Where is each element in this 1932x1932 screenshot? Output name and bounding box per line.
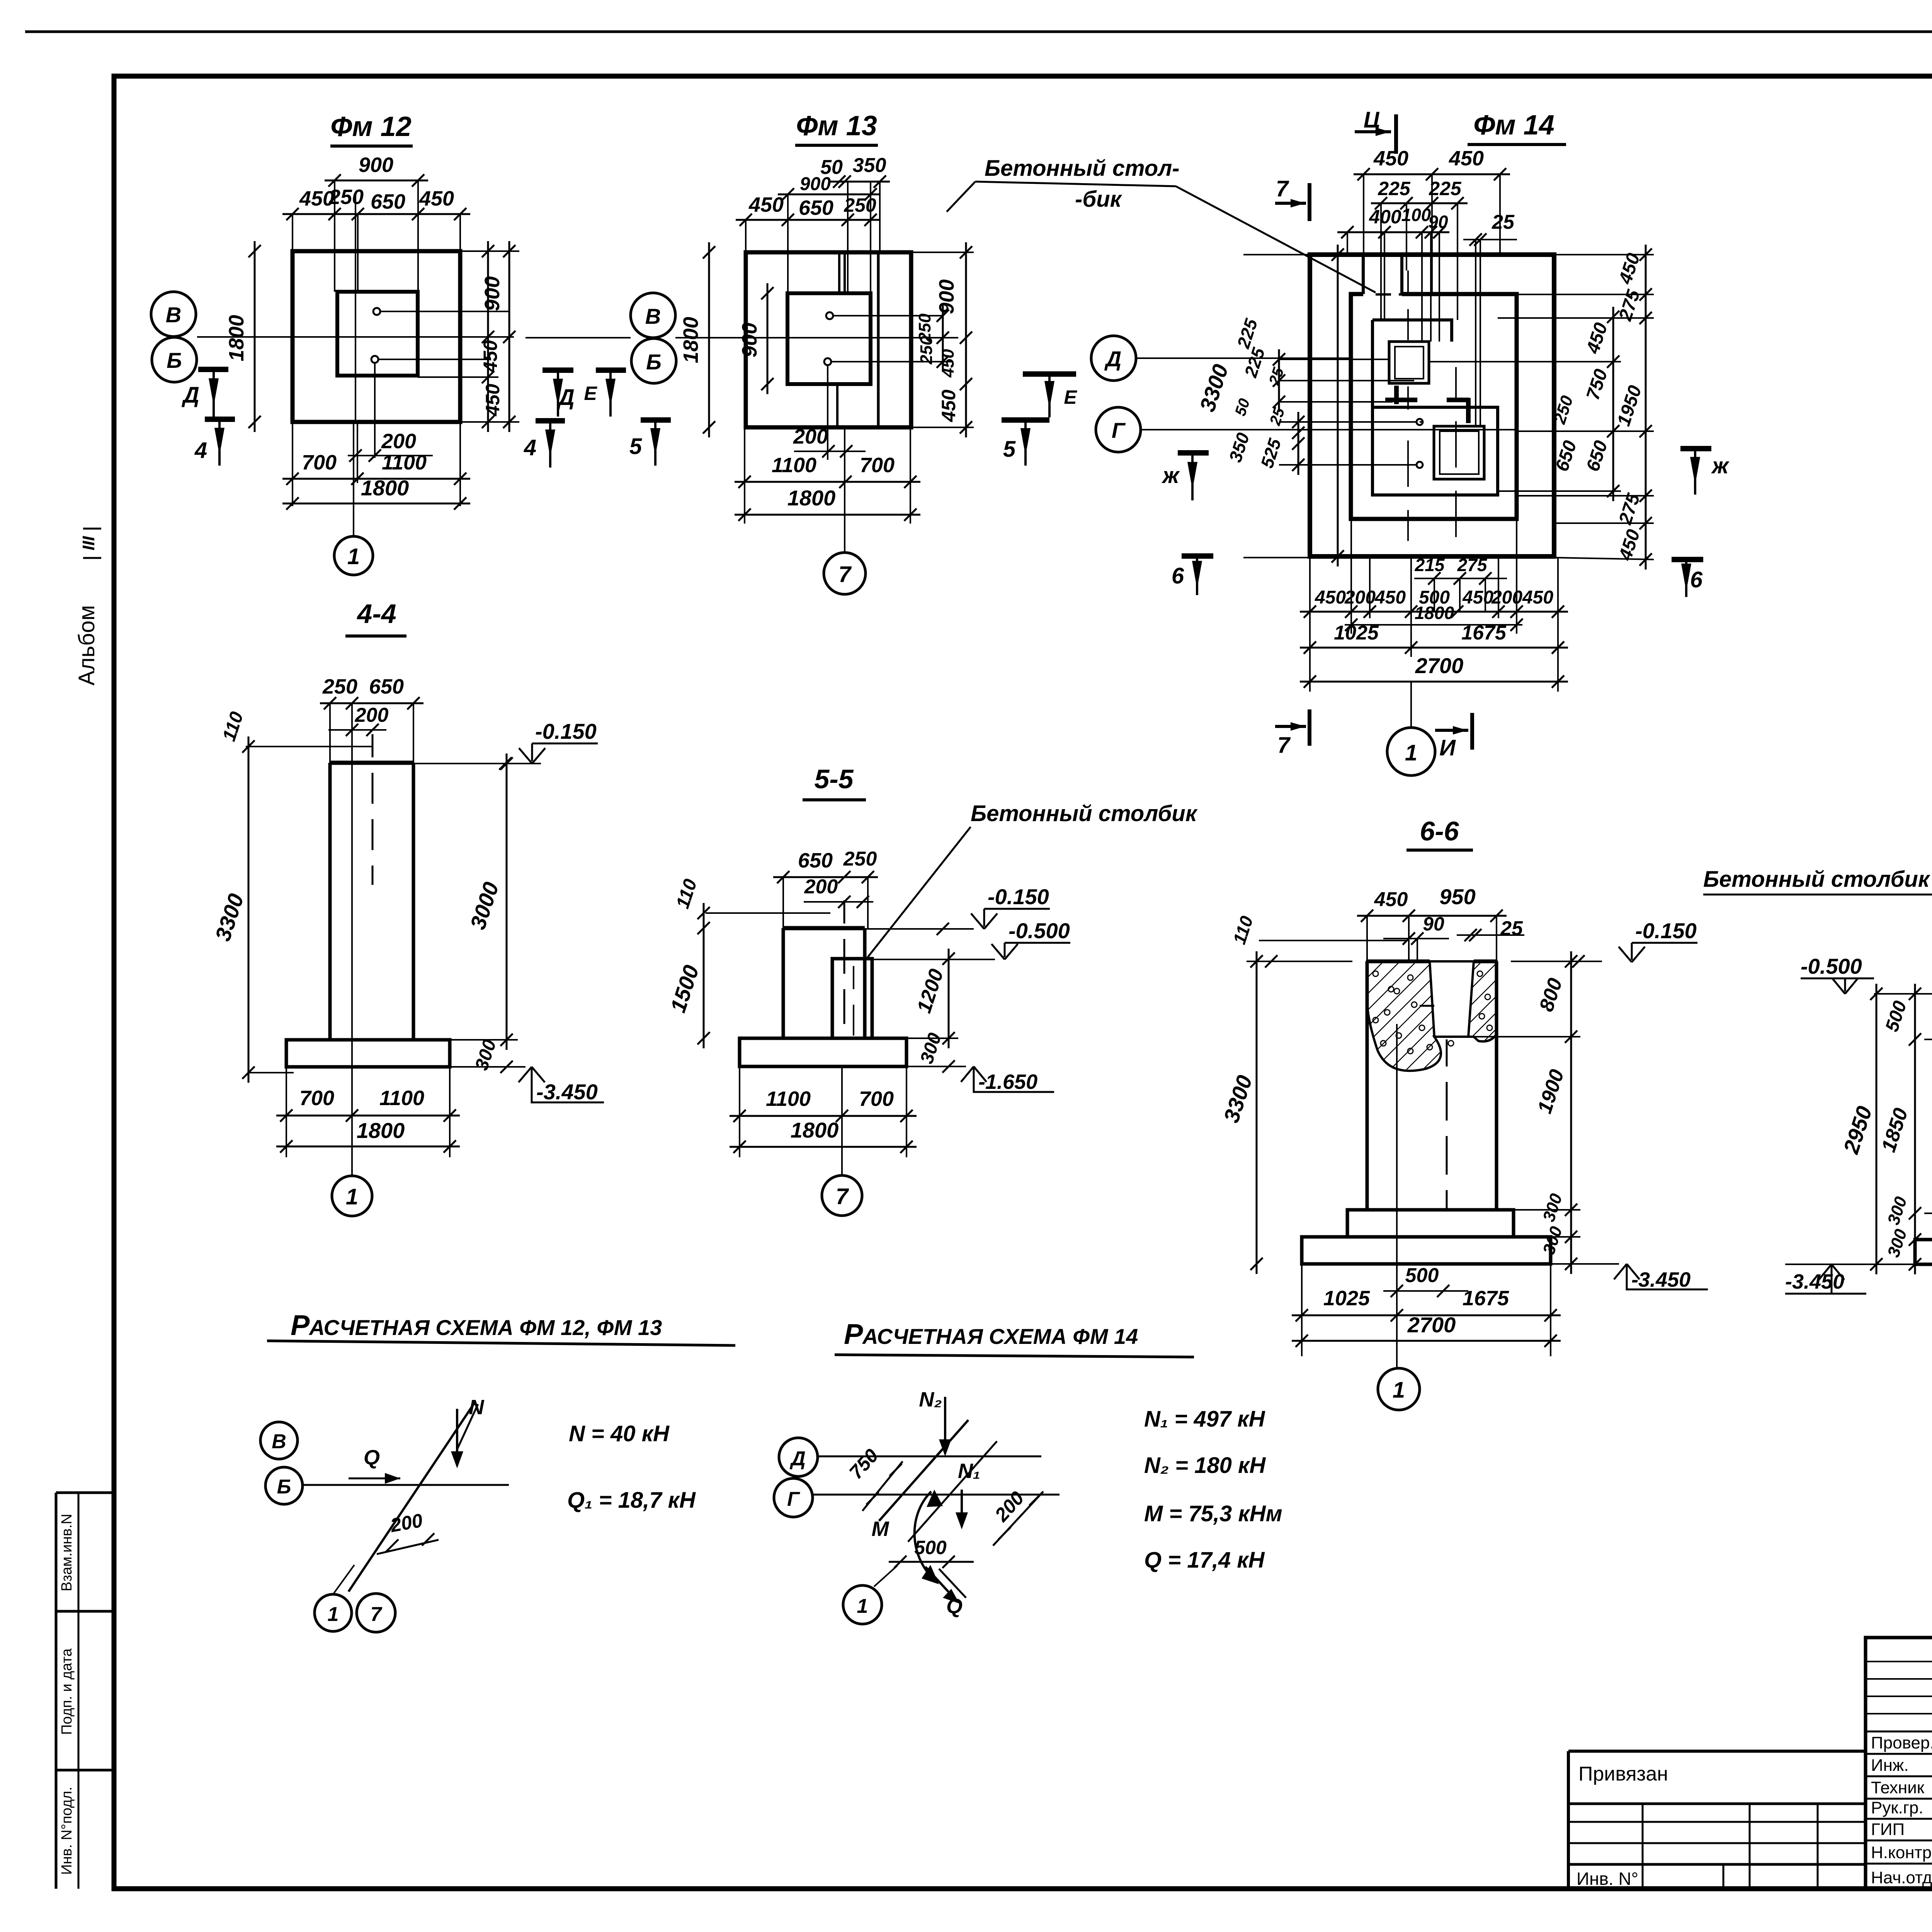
Фм13 bottom dim 1800 <box>735 514 920 516</box>
Фм13 axis circle 7 <box>844 427 845 552</box>
svg-text:M: M <box>872 1517 889 1541</box>
scheme2 axis circle Д <box>779 1438 818 1476</box>
svg-text:Инв. N°: Инв. N° <box>1577 1869 1638 1889</box>
svg-text:N = 40 кН: N = 40 кН <box>569 1421 670 1446</box>
svg-text:450: 450 <box>1374 587 1406 608</box>
svg-text:N: N <box>469 1396 485 1419</box>
section mark И bottom <box>1435 729 1468 732</box>
Фм12 outer square <box>293 251 460 422</box>
svg-text:5: 5 <box>629 434 642 459</box>
7-7 left dim 2950 <box>1876 984 1878 1274</box>
svg-text:-1.650: -1.650 <box>978 1070 1037 1094</box>
svg-text:650: 650 <box>369 675 404 698</box>
axis circle Б middle <box>631 338 676 383</box>
6-6 right dims 800 1900 300 300 <box>1570 951 1572 1274</box>
4-4 column <box>330 761 413 765</box>
svg-text:Провер.: Провер. <box>1871 1733 1932 1752</box>
axis line between plans <box>526 337 631 338</box>
svg-text:АСЧЕТНАЯ СХЕМА ФМ 14: АСЧЕТНАЯ СХЕМА ФМ 14 <box>862 1324 1138 1349</box>
Фм14 dashed centerlines <box>1407 270 1409 541</box>
svg-text:Б: Б <box>167 348 182 372</box>
scheme2 axis lines <box>818 1456 1041 1458</box>
5-5 axis line <box>841 1066 843 1175</box>
svg-text:В: В <box>272 1430 286 1453</box>
svg-text:250: 250 <box>322 675 357 698</box>
svg-text:1025: 1025 <box>1334 622 1379 644</box>
section mark 7 bottom-left <box>1275 725 1306 728</box>
Фм14 right horizontal extension lines <box>1554 254 1654 255</box>
svg-text:-0.500: -0.500 <box>1009 918 1070 943</box>
svg-text:700: 700 <box>859 1087 894 1111</box>
svg-text:250: 250 <box>843 848 877 870</box>
svg-text:225: 225 <box>1429 178 1462 199</box>
svg-text:-3.450: -3.450 <box>536 1080 598 1104</box>
svg-text:650: 650 <box>799 196 833 219</box>
svg-text:225: 225 <box>1378 178 1411 199</box>
svg-text:6-6: 6-6 <box>1420 816 1459 846</box>
Фм14 top dims 400 100 90 <box>1337 231 1449 233</box>
svg-text:2700: 2700 <box>1407 1313 1456 1337</box>
svg-text:ж: ж <box>1162 463 1180 488</box>
Фм14 middle rect <box>1351 294 1517 519</box>
scheme2 inclined member <box>879 1420 968 1521</box>
svg-text:1800: 1800 <box>679 317 702 363</box>
6-6 bottom dim 2700 <box>1292 1340 1561 1342</box>
4-4 bottom dims 700 1100 <box>276 1115 460 1117</box>
4-4 bottom dim 1800 <box>276 1146 460 1148</box>
svg-text:1100: 1100 <box>772 454 816 477</box>
svg-text:Инж.: Инж. <box>1871 1756 1909 1775</box>
Фм12 bottom dim 700 1100 <box>282 478 470 480</box>
svg-text:Бетонный столбик: Бетонный столбик <box>1703 867 1930 892</box>
svg-text:ГИП: ГИП <box>1871 1820 1905 1839</box>
section mark Д left <box>198 367 228 372</box>
Фм14 top dims 450 450 <box>1354 173 1510 175</box>
Фм13 top dim 900 <box>778 194 881 196</box>
scheme1 axis line <box>303 1484 509 1486</box>
svg-text:Б: Б <box>277 1476 291 1498</box>
6-6 axis line <box>1396 1024 1398 1264</box>
svg-text:Д: Д <box>1104 347 1121 371</box>
5-5 column <box>783 926 865 930</box>
svg-text:-3.450: -3.450 <box>1631 1268 1690 1291</box>
svg-text:500: 500 <box>914 1537 947 1558</box>
svg-text:Фм 14: Фм 14 <box>1473 110 1554 141</box>
Фм12 horizontal axis <box>197 336 514 338</box>
svg-text:1675: 1675 <box>1461 622 1507 644</box>
svg-text:1: 1 <box>1393 1378 1405 1403</box>
Фм14 top dims 225 225 <box>1371 202 1468 204</box>
svg-text:Q: Q <box>364 1446 380 1469</box>
6-6 axis circle 1 <box>1396 1264 1398 1368</box>
svg-text:ж: ж <box>1711 453 1730 478</box>
svg-text:1: 1 <box>1405 740 1417 765</box>
svg-text:-3.450: -3.450 <box>1785 1270 1844 1293</box>
svg-text:Г: Г <box>787 1488 800 1510</box>
svg-text:Нач.отд: Нач.отд <box>1871 1868 1932 1887</box>
svg-text:Фм 13: Фм 13 <box>796 111 877 141</box>
5-5 level -0.150 <box>865 928 974 930</box>
4-4 top dim 200 <box>328 729 386 731</box>
6-6 bottom dims 1025 1675 <box>1292 1315 1561 1316</box>
scheme2 axis circle 1 <box>874 1566 897 1587</box>
svg-text:Привязан: Привязан <box>1578 1763 1668 1785</box>
4-4 axis line <box>351 742 353 1067</box>
scheme2 axis circle Г <box>774 1478 813 1517</box>
Фм14 outer rect <box>1310 255 1554 556</box>
svg-text:2700: 2700 <box>1415 653 1464 678</box>
4-4 level -0.150 <box>413 763 541 764</box>
svg-text:Подп. и дата: Подп. и дата <box>59 1648 75 1735</box>
6-6 top thick edge <box>1367 959 1430 963</box>
5-5 footing <box>740 1038 906 1066</box>
section mark Ж left <box>1178 450 1209 456</box>
Фм12 left dim 1800 <box>254 241 256 432</box>
5-5 top dims 650 250 <box>773 876 878 878</box>
section mark 5 left <box>641 417 671 423</box>
svg-text:400: 400 <box>1369 206 1401 228</box>
svg-text:200: 200 <box>381 430 416 453</box>
svg-text:1800: 1800 <box>787 486 836 510</box>
Фм12 column square <box>337 292 418 376</box>
svg-text:650: 650 <box>798 849 833 872</box>
svg-text:700: 700 <box>299 1087 334 1110</box>
svg-text:200: 200 <box>793 425 828 448</box>
svg-text:250: 250 <box>917 336 936 365</box>
6-6 footing steps <box>1347 1210 1514 1237</box>
svg-text:200: 200 <box>804 876 838 898</box>
4-4 footing <box>286 1040 450 1067</box>
svg-text:Г: Г <box>1112 418 1126 442</box>
section mark 4 left <box>205 417 235 422</box>
Фм13 channel (столбик slot) <box>838 252 840 293</box>
svg-text:900: 900 <box>800 174 831 194</box>
svg-text:450: 450 <box>1449 147 1484 170</box>
5-5 bottom dims 1100 700 <box>730 1115 917 1117</box>
svg-text:7: 7 <box>1276 176 1289 201</box>
5-5 left dim 1500 <box>703 903 705 1048</box>
Фм14 right dim lines <box>1612 307 1614 501</box>
Фм14 left dims 225 225 25 <box>1278 349 1280 412</box>
svg-text:Взам.инв.N: Взам.инв.N <box>59 1514 75 1592</box>
Фм13 horizontal axis <box>675 337 958 338</box>
scheme1 axis circle В <box>260 1422 298 1459</box>
Фм13 outer square <box>746 252 911 427</box>
svg-text:450: 450 <box>1462 587 1493 608</box>
svg-text:В: В <box>166 303 181 327</box>
привязан table <box>1567 1751 1570 1889</box>
svg-text:Бетонный столбик: Бетонный столбик <box>971 801 1198 826</box>
svg-text:Б: Б <box>646 350 662 374</box>
5-5 dim 110 <box>706 912 830 914</box>
Фм14 anchors <box>1417 419 1423 425</box>
scheme1 inclined member <box>349 1402 475 1592</box>
svg-text:1: 1 <box>857 1595 868 1617</box>
svg-text:6: 6 <box>1690 567 1703 592</box>
svg-text:900: 900 <box>738 323 761 357</box>
svg-text:Е: Е <box>1064 386 1077 408</box>
6-6 top dim 25 <box>1457 934 1524 936</box>
svg-text:215: 215 <box>1415 555 1445 575</box>
svg-text:450: 450 <box>748 193 784 216</box>
svg-text:Q₁ = 18,7 кН: Q₁ = 18,7 кН <box>567 1488 696 1513</box>
6-6 ground line <box>1247 961 1352 962</box>
svg-text:4: 4 <box>194 438 207 463</box>
Фм14 anchor leader lines <box>1279 421 1417 423</box>
6-6 slot (recess) <box>1430 961 1474 1037</box>
Фм14 corner symbol left <box>1394 386 1399 404</box>
svg-text:25: 25 <box>1492 211 1515 233</box>
Фм14 upper pedestal outline <box>1372 320 1452 342</box>
4-4 anchor dashed line <box>372 734 374 885</box>
section mark Д right of Фм12 <box>543 367 573 373</box>
svg-text:Альбом: Альбом <box>74 605 99 685</box>
Фм14 bottom dim 2700 <box>1300 681 1568 683</box>
section mark 6 right <box>1672 557 1703 562</box>
svg-text:25: 25 <box>1500 917 1523 940</box>
Фм14 lower platform <box>1372 407 1498 495</box>
svg-text:450: 450 <box>480 340 501 373</box>
Фм14 bottom dims 450 200 450 500 450 200 450 <box>1300 611 1568 613</box>
svg-text:6: 6 <box>1172 563 1184 588</box>
svg-text:-0.150: -0.150 <box>535 719 597 743</box>
title block: personnel table frame <box>1866 1638 1932 1889</box>
svg-text:450: 450 <box>939 349 957 378</box>
Фм13 left dim 900 (inner) <box>767 283 769 394</box>
Фм13 right dims 900 250 250 450 450 <box>942 306 944 372</box>
svg-text:1: 1 <box>347 544 360 569</box>
svg-text:950: 950 <box>1439 884 1475 909</box>
Фм12 right dims 900 450 450 <box>487 241 489 432</box>
svg-text:И: И <box>1439 735 1456 760</box>
svg-text:1100: 1100 <box>766 1087 811 1111</box>
svg-text:500: 500 <box>1405 1264 1439 1287</box>
svg-text:Р: Р <box>844 1318 863 1350</box>
section mark 7 top-left <box>1275 202 1306 205</box>
svg-text:90: 90 <box>1423 913 1444 935</box>
section mark Е right of Фм13 <box>1023 371 1076 377</box>
6-6 concrete texture dots <box>1373 971 1378 976</box>
Фм12 top dim 900 <box>325 180 428 182</box>
4-4 top line 110 <box>246 746 372 747</box>
axis circle Д <box>1091 336 1136 381</box>
svg-text:1: 1 <box>346 1184 358 1209</box>
svg-text:В: В <box>645 304 661 328</box>
4-4 top dims 250 650 <box>320 702 423 704</box>
axis circle Б left <box>152 337 197 382</box>
6-6 top dim 90 <box>1383 938 1449 939</box>
svg-text:1025: 1025 <box>1323 1287 1370 1310</box>
svg-text:Н.контр: Н.контр <box>1871 1843 1932 1862</box>
svg-text:N₁ = 497 кН: N₁ = 497 кН <box>1144 1406 1265 1432</box>
svg-text:450: 450 <box>419 187 454 210</box>
Фм13 bottom dim 200 <box>794 451 866 452</box>
svg-text:Е: Е <box>584 383 597 404</box>
5-5 right dim 1200 <box>948 949 950 1048</box>
Фм14 notch verticals <box>1362 255 1365 294</box>
svg-text:450: 450 <box>482 384 503 417</box>
Фм12 axis circle 1 <box>353 422 354 536</box>
svg-text:Инв. N°подл.: Инв. N°подл. <box>59 1787 75 1875</box>
svg-text:1800: 1800 <box>791 1118 839 1142</box>
section mark 4 right <box>536 418 565 423</box>
axis circle Г <box>1096 407 1141 452</box>
svg-text:1675: 1675 <box>1463 1287 1509 1310</box>
svg-text:1800: 1800 <box>361 476 409 500</box>
svg-text:450: 450 <box>1315 587 1346 608</box>
svg-text:-0.150: -0.150 <box>1635 918 1697 943</box>
svg-text:N₁: N₁ <box>958 1459 980 1483</box>
svg-text:450: 450 <box>938 389 959 422</box>
svg-text:200: 200 <box>1344 587 1376 608</box>
axis circle В left <box>151 292 196 337</box>
6-6 dashed centerline <box>1446 1039 1448 1210</box>
svg-text:650: 650 <box>371 190 405 213</box>
Фм14 bottom dims 1025 1675 <box>1300 647 1568 649</box>
Фм12 anchor bolts <box>373 308 380 315</box>
svg-text:5: 5 <box>1003 437 1016 462</box>
Фм13 top dim 450 650 250 <box>736 219 881 221</box>
5-5 axis circle 7 <box>822 1175 862 1216</box>
5-5 bottom dim 1800 <box>730 1146 917 1148</box>
left stamp table <box>55 1493 58 1889</box>
svg-text:III: III <box>79 536 98 550</box>
scheme1 axis circle Б <box>265 1467 303 1504</box>
svg-text:-0.500: -0.500 <box>1801 954 1862 978</box>
6-6 pit walls / column <box>1366 961 1369 1210</box>
Фм14 axis circle 1 <box>1410 682 1412 728</box>
svg-text:5-5: 5-5 <box>814 764 854 794</box>
svg-text:450: 450 <box>1373 147 1408 170</box>
svg-text:Фм 12: Фм 12 <box>330 111 412 142</box>
svg-text:Д: Д <box>556 385 575 410</box>
5-5 dashed lines <box>844 900 845 1024</box>
svg-text:-бик: -бик <box>1075 187 1122 212</box>
svg-text:4: 4 <box>524 435 536 460</box>
Фм12 vertical axis <box>355 193 356 422</box>
Фм14 top extension verticals <box>1363 174 1364 255</box>
6-6 level -3.450 <box>1551 1263 1619 1265</box>
svg-text:7: 7 <box>1277 733 1291 758</box>
svg-text:450: 450 <box>1374 888 1408 911</box>
section mark Ж right <box>1680 446 1711 451</box>
Фм12 bottom dim 1800 <box>282 503 470 505</box>
svg-text:7: 7 <box>371 1603 383 1626</box>
svg-text:1100: 1100 <box>382 451 427 474</box>
svg-text:Ц: Ц <box>1364 107 1380 133</box>
svg-text:1100: 1100 <box>379 1087 424 1110</box>
svg-text:Д: Д <box>181 383 199 408</box>
svg-text:1800: 1800 <box>357 1118 405 1143</box>
section mark Е left of Фм13 <box>596 367 626 373</box>
svg-text:450: 450 <box>1522 587 1553 608</box>
svg-text:N₂ = 180 кН: N₂ = 180 кН <box>1144 1453 1266 1478</box>
4-4 axis circle 1 <box>351 1067 353 1176</box>
Фм14 corner symbol right <box>1447 398 1469 402</box>
svg-text:7: 7 <box>836 1184 849 1209</box>
Фм14 bottom dim 1800 <box>1345 624 1522 626</box>
svg-text:900: 900 <box>935 279 958 314</box>
svg-text:4-4: 4-4 <box>356 599 396 629</box>
svg-text:350: 350 <box>853 154 886 177</box>
Фм13 bottom dim 1100 700 <box>735 481 920 483</box>
Фм12 bottom dim 200 <box>348 455 433 456</box>
svg-text:Д: Д <box>789 1447 806 1470</box>
Фм14 bottom extensions <box>1309 556 1311 692</box>
section mark 5 right of Фм13 <box>1002 417 1049 423</box>
top trim line <box>25 31 1932 33</box>
6-6 top dims 450 950 <box>1357 915 1507 917</box>
svg-text:250: 250 <box>328 185 364 209</box>
Фм14 left dim 3300 <box>1337 245 1339 566</box>
svg-text:M = 75,3 кНм: M = 75,3 кНм <box>1144 1501 1282 1526</box>
6-6 left dim 3300 <box>1256 951 1258 1274</box>
4-4 level -3.450 <box>450 1066 526 1068</box>
svg-text:1800: 1800 <box>225 315 248 361</box>
6-6 bottom dim 500 <box>1383 1290 1468 1292</box>
section mark Ц top <box>1355 130 1391 133</box>
svg-text:200: 200 <box>1491 587 1522 608</box>
section mark 6 left <box>1182 553 1213 559</box>
svg-text:200: 200 <box>355 704 389 726</box>
7-7 left dims 500 1850 300 300 <box>1914 984 1916 1274</box>
svg-text:275: 275 <box>1457 555 1488 575</box>
svg-text:900: 900 <box>359 153 393 177</box>
Фм13 top dim 50 350 <box>829 181 890 183</box>
Фм14 bottom dims 275 275 <box>1414 578 1507 579</box>
4-4 left dim 3300 <box>248 736 250 1083</box>
4-4 right dim 3000 <box>506 753 508 1050</box>
Фм13 column square <box>787 293 871 384</box>
Фм12 top dim 450 250 650 450 <box>282 213 470 215</box>
Фм14 left dims 350 50 25 525 <box>1298 412 1299 475</box>
Фм14 top dim 25 <box>1463 239 1517 240</box>
svg-text:Р: Р <box>291 1309 310 1341</box>
Фм13 anchors <box>826 312 833 319</box>
5-5 top dim 200 <box>804 901 873 903</box>
svg-text:Бетонный стол-: Бетонный стол- <box>985 156 1180 181</box>
axis circle В middle <box>631 293 675 338</box>
5-5 level -1.650 <box>906 1066 966 1067</box>
svg-text:Рук.гр.: Рук.гр. <box>1871 1798 1923 1817</box>
Фм14 axis leaders Д Г <box>1136 357 1350 359</box>
svg-text:900: 900 <box>481 276 504 311</box>
5-5 столбик (concrete post) <box>832 959 872 1038</box>
Фм14 lower anchor square <box>1434 426 1484 479</box>
album label III <box>83 528 101 530</box>
svg-text:-0.150: -0.150 <box>988 884 1049 909</box>
Фм14 upper anchor square <box>1389 342 1429 383</box>
svg-text:N₂: N₂ <box>919 1388 942 1411</box>
svg-text:700: 700 <box>302 451 337 474</box>
svg-text:7: 7 <box>838 562 852 587</box>
svg-text:700: 700 <box>860 454 895 477</box>
svg-text:Техник: Техник <box>1871 1778 1925 1797</box>
Фм13 inner strip line <box>877 252 880 427</box>
6-6 hatched concrete <box>1367 961 1497 1071</box>
svg-text:1: 1 <box>328 1603 339 1626</box>
scheme1 axis circles 1 7 <box>333 1565 354 1594</box>
Фм13 left dim 1800 <box>708 242 710 437</box>
svg-text:Q = 17,4 кН: Q = 17,4 кН <box>1144 1548 1265 1573</box>
svg-text:АСЧЕТНАЯ СХЕМА ФМ 12, ФМ 13: АСЧЕТНАЯ СХЕМА ФМ 12, ФМ 13 <box>308 1315 662 1340</box>
